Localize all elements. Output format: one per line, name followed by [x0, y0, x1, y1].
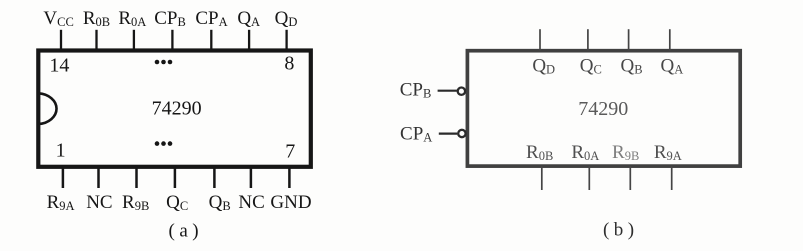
svg-text:CPA: CPA	[400, 124, 432, 145]
svg-text:1: 1	[56, 140, 66, 162]
svg-text:8: 8	[284, 53, 294, 75]
svg-text:(a): (a)	[169, 220, 204, 241]
svg-text:VCC: VCC	[43, 8, 73, 29]
svg-text:GND: GND	[270, 192, 311, 213]
svg-text:QB: QB	[209, 192, 231, 213]
svg-text:CPA: CPA	[195, 8, 227, 29]
svg-text:14: 14	[49, 55, 69, 77]
svg-text:QA: QA	[237, 8, 260, 29]
svg-text:CPB: CPB	[154, 8, 186, 29]
svg-text:NC: NC	[238, 192, 264, 213]
svg-text:QD: QD	[275, 8, 298, 29]
svg-text:R0B: R0B	[83, 8, 110, 29]
svg-text:R9A: R9A	[47, 192, 75, 213]
svg-text:QC: QC	[166, 192, 188, 213]
svg-text:QA: QA	[661, 55, 684, 76]
svg-text:QD: QD	[532, 55, 555, 76]
svg-text:74290: 74290	[152, 98, 202, 120]
svg-text:NC: NC	[86, 192, 112, 213]
svg-text:R9B: R9B	[612, 142, 639, 163]
svg-text:QB: QB	[620, 55, 642, 76]
svg-text:QC: QC	[580, 55, 602, 76]
svg-text:(b): (b)	[603, 220, 639, 241]
svg-text:R9B: R9B	[122, 192, 149, 213]
svg-text:R9A: R9A	[654, 142, 682, 163]
svg-text:74290: 74290	[578, 98, 628, 120]
svg-text:7: 7	[285, 141, 295, 163]
svg-text:R0A: R0A	[571, 142, 599, 163]
svg-text:CPB: CPB	[400, 80, 432, 101]
svg-text:R0A: R0A	[118, 8, 146, 29]
svg-text:R0B: R0B	[526, 142, 553, 163]
